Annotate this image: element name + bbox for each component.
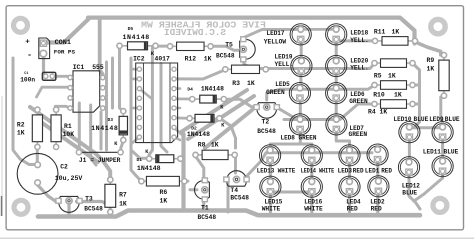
wire IC2 pin9 stub <box>131 137 139 144</box>
svg-text:1N4148: 1N4148 <box>123 34 150 41</box>
connector CON1 <box>39 38 50 59</box>
LED LED20 <box>326 55 347 76</box>
LED10 label <box>394 116 412 123</box>
svg-text:C1: C1 <box>24 72 28 76</box>
LED LED18 <box>326 24 347 45</box>
wire IC2 interior diag <box>139 89 152 99</box>
wire T3 emitter to ground <box>67 204 70 216</box>
svg-text:BC548: BC548 <box>84 206 103 213</box>
svg-text:LED19: LED19 <box>275 54 293 61</box>
D2 value 1N4148 <box>187 131 210 138</box>
wire T4 right to LED13 row <box>245 153 272 178</box>
wire trunk IC2 left b <box>130 58 133 152</box>
wire D5 cathode link K <box>155 45 172 48</box>
svg-text:T4: T4 <box>230 187 238 194</box>
svg-text:R8: R8 <box>198 141 206 148</box>
wire R8 right to T4 base <box>234 155 237 173</box>
wire R6 right join <box>184 180 189 183</box>
resistor R2 <box>32 107 42 149</box>
LED LED11 <box>432 156 453 177</box>
D1 cathode K <box>145 149 149 155</box>
LED LED12 <box>398 157 419 178</box>
LED LED4 <box>339 176 360 197</box>
wire row6 bottom link <box>271 191 312 194</box>
R12 refdes <box>185 55 197 62</box>
LED14 label <box>301 168 335 175</box>
LED4 colour <box>347 206 358 213</box>
wire R7 bottom to ground <box>109 207 112 216</box>
svg-text:LED4: LED4 <box>346 199 361 206</box>
LED9 label <box>429 116 444 123</box>
CON1 minus mark <box>27 50 32 60</box>
resistor R8 <box>193 150 237 159</box>
LED LED8 <box>290 114 311 135</box>
LED5 colour <box>266 89 285 96</box>
R6 refdes <box>160 189 168 196</box>
wire C1 to IC1 pin1 <box>52 75 69 78</box>
wire col2 r1-r2 <box>335 40 338 61</box>
T1 value BC548 <box>198 214 217 221</box>
svg-text:GREEN: GREEN <box>349 98 368 105</box>
svg-text:+: + <box>25 39 30 47</box>
resistor R6 <box>139 176 187 186</box>
LED5 label <box>275 81 290 88</box>
wire R4 right stub <box>412 103 419 106</box>
wire +V top rail from CON1 <box>45 19 89 43</box>
R7 refdes <box>119 191 127 198</box>
T5 value BC548 <box>216 53 235 60</box>
wire T2 collector up <box>267 89 280 100</box>
svg-text:J1 = JUMPER: J1 = JUMPER <box>79 157 121 164</box>
LED1 colour <box>381 168 392 175</box>
svg-text:10K: 10K <box>63 131 75 138</box>
LED6 label <box>350 91 365 98</box>
wire IC2 pin15 stub <box>131 78 139 81</box>
wire R8 left to T1 <box>195 155 204 178</box>
LED15 colour <box>262 206 281 213</box>
svg-text:1K: 1K <box>119 201 127 208</box>
wire K stub to IC2 <box>149 47 152 156</box>
svg-text:10u,25V: 10u,25V <box>55 175 83 182</box>
LED LED3 <box>339 145 360 166</box>
wire T1 base stub <box>190 188 197 191</box>
wire diagonal bus A <box>30 107 110 180</box>
R3 refdes <box>232 80 240 87</box>
C1 refdes <box>24 72 28 76</box>
wire row3 bus <box>280 85 375 89</box>
LED4 label <box>346 199 361 206</box>
svg-text:BC548: BC548 <box>198 214 217 221</box>
svg-text:BLUE: BLUE <box>445 116 460 123</box>
svg-text:1N4148: 1N4148 <box>187 131 210 138</box>
svg-text:R5: R5 <box>374 73 382 80</box>
resistor R12 <box>167 42 213 50</box>
R3 value <box>247 80 255 87</box>
R1 value <box>63 131 75 138</box>
D4 value 1N4148 <box>201 85 224 92</box>
R9 refdes <box>427 57 435 64</box>
mounting hole top-left <box>14 18 28 32</box>
wire D4 to T2 base <box>224 99 256 107</box>
LED LED1 <box>367 144 388 165</box>
wire R3 left to IC2 <box>177 69 226 79</box>
T4 value BC548 <box>230 194 249 201</box>
wire col2 r3-r4 <box>335 99 338 120</box>
wire left edge ground run <box>13 58 36 165</box>
svg-text:T1: T1 <box>201 205 209 212</box>
LED1 label <box>365 168 380 175</box>
resistor R4 <box>372 100 415 109</box>
diode D1 1N4148 <box>147 155 183 163</box>
LED10 colour <box>414 116 429 123</box>
mounting hole top-right <box>431 19 445 33</box>
LED11 colour <box>444 149 459 156</box>
wire LED9 to LED11 <box>441 138 444 161</box>
C2 value 10u,25V <box>55 175 83 182</box>
D2 cathode K <box>221 123 225 129</box>
R1 refdes <box>64 123 72 130</box>
D1 value 1N4148 <box>137 165 161 172</box>
C1 value 100n <box>20 77 35 84</box>
R8 refdes <box>198 141 206 148</box>
LED18 colour <box>350 37 369 44</box>
R7 value <box>119 201 127 208</box>
J1 label <box>79 157 121 164</box>
svg-text:WHITE: WHITE <box>262 206 281 213</box>
wire IC2 pin6 stub <box>174 107 180 110</box>
wire col1 r4 down <box>270 130 300 151</box>
wire C2 to T3 <box>38 185 60 202</box>
wire diagonal bus B <box>38 120 98 162</box>
transistor Q1 (T1) <box>195 178 210 202</box>
D3 cathode K <box>114 141 118 147</box>
wire IC2 to D4 <box>174 98 192 101</box>
LED13 label <box>257 168 296 175</box>
wire R2 bottom to C2 <box>36 146 39 164</box>
LED19 label <box>275 54 293 61</box>
LED3 colour <box>353 168 364 175</box>
svg-text:1K: 1K <box>380 109 388 116</box>
IC U2 4017 (IC2) <box>136 63 178 143</box>
svg-text:YELL.: YELL. <box>350 64 369 71</box>
svg-text:BLUE: BLUE <box>444 149 459 156</box>
T1 refdes <box>201 205 209 212</box>
svg-text:IC2: IC2 <box>133 55 145 62</box>
wire fan diagonal B <box>188 96 254 139</box>
wire R6 left feed <box>131 152 142 181</box>
wire IC2 pin5 stub <box>174 87 180 90</box>
svg-text:1K: 1K <box>247 80 255 87</box>
R4 value <box>380 109 388 116</box>
svg-text:R1: R1 <box>64 123 72 130</box>
svg-text:R9: R9 <box>427 57 435 64</box>
wire D2 cathode to R8 <box>220 118 236 148</box>
wire col1 r1-r2 <box>300 40 303 61</box>
wire R9 bottom to LED9 <box>441 97 443 123</box>
wire col1 r2-r3 <box>299 72 302 88</box>
resistor R7 <box>105 177 116 214</box>
wire IC1 pin7 stub <box>103 86 107 89</box>
R11 value <box>392 29 400 36</box>
svg-text:BLUE: BLUE <box>402 190 417 197</box>
R10 value <box>394 91 402 98</box>
wire IC2 pin to centre <box>174 128 183 136</box>
LED17 colour <box>264 39 287 46</box>
copper title FIVE COLOR FLASHER WM (mirrored) <box>140 20 266 31</box>
wire row1 to R11 <box>336 39 375 41</box>
capacitor C2 electrolytic <box>17 153 58 194</box>
svg-text:D3: D3 <box>108 117 114 123</box>
svg-text:R10: R10 <box>373 91 385 98</box>
svg-text:1K: 1K <box>388 73 396 80</box>
D4 cathode K <box>220 105 224 111</box>
svg-text:4017: 4017 <box>155 55 171 62</box>
LED12 colour <box>402 190 417 197</box>
wire IC2 pin7 stub <box>174 137 180 140</box>
IC2 value 4017 <box>155 55 171 62</box>
wire col4 r5-r6 <box>376 161 379 182</box>
wire T5 emitter down <box>244 61 284 69</box>
wire T1 emitter down <box>202 200 205 210</box>
wire col2 r5-r6 <box>310 161 313 182</box>
wire LED10-LED9 top link <box>409 126 442 129</box>
wire through IC2 b <box>161 64 167 153</box>
svg-text:R4: R4 <box>368 109 376 116</box>
wire trunk IC1 c <box>100 112 103 149</box>
svg-text:YELL.: YELL. <box>275 61 294 68</box>
svg-text:R11: R11 <box>374 29 386 36</box>
capacitor C1 <box>42 72 55 80</box>
svg-text:LED18: LED18 <box>350 30 368 37</box>
wire fan diagonal A <box>181 90 247 132</box>
LED LED17 <box>290 24 311 45</box>
wire col2 r2-r3 <box>335 72 338 88</box>
wire LED11 down <box>414 173 443 202</box>
wire row5 top bus <box>273 151 372 154</box>
LED LED9 <box>432 122 453 143</box>
svg-text:LED5: LED5 <box>275 81 290 88</box>
LED LED19 <box>291 55 312 76</box>
mounting hole bottom-right <box>433 198 447 212</box>
transistor Q2 (T2) <box>254 103 279 118</box>
svg-text:FOR PS: FOR PS <box>54 49 76 56</box>
wire fan diagonal C <box>205 110 252 148</box>
svg-text:T3: T3 <box>85 195 93 202</box>
transistor Q4 (T4) <box>224 171 249 186</box>
D5 cathode K mark <box>151 51 155 57</box>
svg-text:1K: 1K <box>17 129 25 136</box>
LED LED2 <box>368 176 389 197</box>
svg-text:T2: T2 <box>262 118 270 125</box>
svg-text:D4: D4 <box>187 86 193 92</box>
resistor R1 <box>51 107 61 149</box>
D5 refdes <box>128 26 134 32</box>
svg-text:LED3: LED3 <box>338 168 353 175</box>
LED LED16 <box>301 176 322 197</box>
svg-text:BLUE: BLUE <box>414 116 429 123</box>
wire LED16 to ground <box>310 193 313 215</box>
wire col1 r5-r6 <box>269 161 272 182</box>
resistor R10 <box>372 81 415 90</box>
svg-text:RED: RED <box>371 206 382 213</box>
IC2 refdes <box>133 55 145 62</box>
svg-text:LED15: LED15 <box>264 199 282 206</box>
LED LED5 <box>289 83 310 104</box>
wire LED4 to ground <box>348 193 351 215</box>
svg-text:R7: R7 <box>119 191 127 198</box>
svg-text:BC548: BC548 <box>230 194 249 201</box>
svg-text:-: - <box>27 50 32 60</box>
wire r4 to LED14 <box>300 144 312 150</box>
svg-text:RED: RED <box>347 206 358 213</box>
svg-text:LED2: LED2 <box>370 199 385 206</box>
R4 refdes <box>368 109 376 116</box>
scan edge marks <box>0 96 474 238</box>
LED LED15 <box>260 176 281 197</box>
svg-text:1N4148: 1N4148 <box>137 165 161 172</box>
svg-text:1K: 1K <box>392 29 400 36</box>
wire IC2 to D2 <box>174 117 190 120</box>
T2 refdes <box>262 118 270 125</box>
wire T4 emitter down <box>227 180 230 212</box>
LED LED13 <box>260 145 281 166</box>
jumper J1 <box>76 150 123 155</box>
D3 refdes <box>108 117 114 123</box>
svg-text:R6: R6 <box>160 189 168 196</box>
svg-text:LED9: LED9 <box>429 116 444 123</box>
wire col1 r3-r4 <box>299 99 302 120</box>
svg-text:LED13 WHITE: LED13 WHITE <box>257 168 296 175</box>
LED20 label <box>350 57 368 64</box>
svg-text:1K: 1K <box>211 141 219 148</box>
LED19 colour <box>275 61 294 68</box>
svg-text:YELLOW: YELLOW <box>264 39 287 46</box>
svg-text:LED1: LED1 <box>365 168 380 175</box>
wire R3 right join <box>265 67 271 71</box>
wire centre vertical thick <box>181 134 185 209</box>
LED3 label <box>338 168 353 175</box>
svg-text:1K: 1K <box>160 197 168 204</box>
wire trunk IC1-J1 a <box>78 103 81 152</box>
svg-text:1N4148: 1N4148 <box>91 125 118 132</box>
R9 value <box>427 65 435 72</box>
LED LED6 <box>326 83 347 104</box>
diode D3 1N4148 <box>119 109 127 143</box>
LED17 label <box>267 30 285 37</box>
LED20 colour <box>350 64 369 71</box>
svg-text:C2: C2 <box>60 163 68 170</box>
svg-text:LED16: LED16 <box>304 199 322 206</box>
R12 value <box>204 55 212 62</box>
LED6 colour <box>349 98 368 105</box>
R8 value <box>211 141 219 148</box>
svg-text:LED11: LED11 <box>423 149 441 156</box>
wire col3 r5-r6 <box>348 161 351 182</box>
R5 value <box>388 73 396 80</box>
copper title S.C.DWIVEDI (mirrored) <box>164 27 226 38</box>
LED7 colour <box>349 131 368 138</box>
LED16 label <box>304 199 322 206</box>
wire D1 cathode join <box>181 157 183 160</box>
LED8 label <box>281 135 317 142</box>
wire trunk IC2 left a2 <box>111 58 114 108</box>
svg-text:CON1: CON1 <box>55 39 71 47</box>
wire R1 top to IC1 <box>55 106 70 108</box>
IC1 refdes <box>73 64 85 71</box>
svg-text:LED14 WHITE: LED14 WHITE <box>301 168 335 175</box>
C2 refdes <box>60 163 68 170</box>
LED2 colour <box>371 206 382 213</box>
CON1 plus mark <box>25 39 30 47</box>
diode D4 1N4148 <box>190 95 227 103</box>
svg-text:RED: RED <box>353 168 364 175</box>
wire R2 to IC1 pin2 <box>37 87 70 97</box>
svg-text:T5: T5 <box>225 41 233 48</box>
svg-text:100n: 100n <box>20 77 35 84</box>
T5 refdes <box>225 41 233 48</box>
wire T3 collector to R7 <box>77 202 111 207</box>
svg-text:R12: R12 <box>185 55 197 62</box>
D3 value 1N4148 <box>91 125 118 132</box>
IC1 value 555 <box>92 64 104 71</box>
svg-text:LED17: LED17 <box>267 30 285 37</box>
wire R10 right stub <box>412 84 419 87</box>
D5 value 1N4148 <box>123 34 150 41</box>
T2 value BC548 <box>257 128 276 135</box>
CON1 FOR PS <box>54 49 76 56</box>
wire D3 bottom to J1 <box>121 141 124 152</box>
LED LED7 <box>326 114 347 135</box>
CON1 refdes <box>55 39 71 47</box>
wire LED15 to ground <box>269 193 272 215</box>
resistor R11 <box>372 37 417 46</box>
wire LED2 to ground <box>376 193 379 215</box>
LED11 label <box>423 149 441 156</box>
svg-text:IC1: IC1 <box>73 64 85 71</box>
wire R12 to T5 base <box>212 46 241 50</box>
diode D2 1N4148 <box>187 114 222 122</box>
svg-text:D1: D1 <box>137 157 143 163</box>
R5 refdes <box>374 73 382 80</box>
svg-text:RED: RED <box>381 168 392 175</box>
D4 refdes <box>187 86 193 92</box>
IC U1 555 (IC1) <box>68 71 105 112</box>
LED12 label <box>402 183 420 190</box>
resistor R5 <box>372 59 415 68</box>
mounting hole bottom-left <box>14 200 28 214</box>
wire D5 left to D3 trunk <box>120 46 124 112</box>
D2 refdes <box>191 126 197 132</box>
wire LED12 to ground <box>409 174 420 210</box>
D1 refdes <box>137 157 143 163</box>
wire +V feed to R9 <box>415 42 441 55</box>
svg-text:R3: R3 <box>232 80 240 87</box>
LED15 label <box>264 199 282 206</box>
wire IC2 pin16 stub <box>131 68 139 71</box>
svg-text:1K: 1K <box>427 65 435 72</box>
wire LED17-LED18 top link <box>302 28 337 31</box>
wire row4 bus <box>284 104 375 120</box>
wire trunk IC1 b <box>91 105 96 165</box>
wire T2 emitter right <box>277 107 299 119</box>
svg-text:R2: R2 <box>17 121 25 128</box>
svg-text:BC548: BC548 <box>216 53 235 60</box>
wire CON1 minus to C1 <box>44 57 46 76</box>
svg-text:LED20: LED20 <box>350 57 368 64</box>
diode D5 1N4148 <box>117 42 158 50</box>
wire col2 r4 down <box>336 130 349 151</box>
svg-text:1K: 1K <box>204 55 212 62</box>
